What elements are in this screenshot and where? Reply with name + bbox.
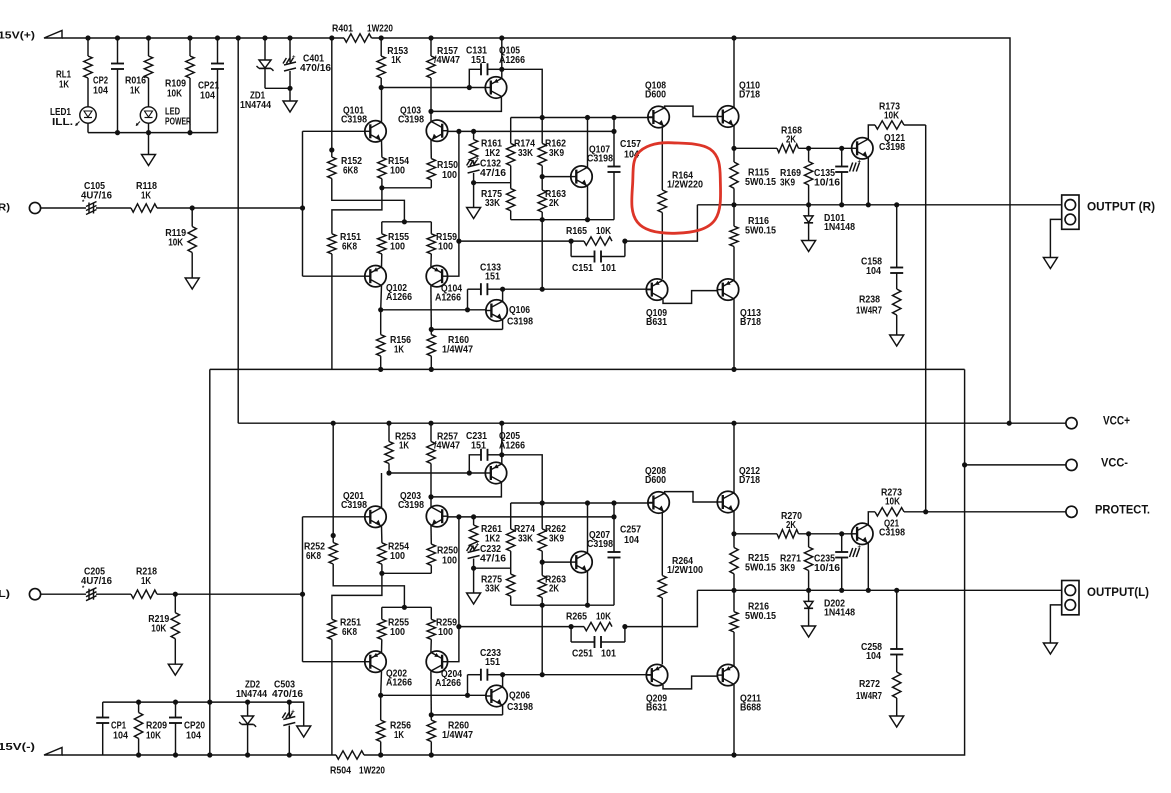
svg-text:B688: B688	[740, 703, 761, 714]
svg-text:104: 104	[200, 90, 215, 101]
junction	[187, 35, 192, 40]
junction	[731, 202, 736, 207]
svg-text:+: +	[476, 543, 480, 549]
wire: pre-driver base line	[448, 516, 614, 518]
junction	[245, 700, 250, 705]
svg-text:1N4148: 1N4148	[824, 608, 855, 619]
wire: low bias line	[511, 219, 614, 221]
wire: input to coupling cap	[41, 593, 86, 595]
junction	[190, 205, 195, 210]
off-page arrow 15V(-)	[44, 748, 62, 756]
wire: servo emitter	[502, 320, 504, 330]
svg-text:1/2W220: 1/2W220	[667, 179, 703, 190]
wire: sense collector to R173	[868, 125, 875, 139]
wire: output NPN emitter column	[733, 511, 735, 534]
wire: C-cap left lead	[469, 69, 481, 87]
junction	[962, 462, 967, 467]
svg-text:4U7/16: 4U7/16	[81, 190, 112, 201]
wire: driver base line	[381, 87, 485, 89]
resistor R255 (body)	[381, 607, 383, 619]
resistor R159 (body)	[430, 222, 432, 234]
junction	[207, 752, 212, 757]
svg-text:10K: 10K	[596, 612, 612, 623]
svg-text:D600: D600	[645, 90, 666, 101]
svg-text:1K: 1K	[394, 344, 405, 355]
transistor Q202	[365, 651, 386, 672]
wire: output NPN collector to rail	[733, 38, 735, 107]
resistor R155 (body)	[381, 222, 383, 234]
wire: LED1 cathode to bottom bus	[87, 123, 89, 133]
resistor R265 (body)	[584, 622, 612, 630]
svg-text:A1266: A1266	[435, 292, 461, 303]
svg-text:1K: 1K	[59, 79, 70, 90]
junction	[540, 217, 545, 222]
junction	[136, 752, 141, 757]
junction	[331, 421, 336, 426]
capacitor C133	[467, 289, 469, 310]
svg-text:VCC+: VCC+	[1103, 416, 1130, 428]
resistor R152 (body)	[331, 38, 333, 157]
junction	[465, 307, 470, 312]
capacitor C131	[480, 63, 482, 75]
wire: lower driver emitter jog to output PNP base	[663, 676, 717, 689]
capacitor C257	[613, 503, 615, 552]
junction	[839, 202, 844, 207]
junction	[146, 130, 151, 135]
svg-text:100: 100	[390, 165, 405, 176]
svg-text:B631: B631	[646, 703, 667, 714]
junction	[379, 571, 384, 576]
resistor R262 (body)	[541, 503, 543, 529]
junction	[923, 509, 928, 514]
wire: sense emitter to output	[867, 158, 869, 205]
junction	[585, 500, 590, 505]
wire: servo collector to bias link	[503, 674, 543, 676]
junction	[569, 239, 574, 244]
resistor R273 (body)	[875, 508, 904, 516]
junction	[287, 700, 292, 705]
svg-text:C3198: C3198	[341, 115, 367, 126]
ground for ZD1/C401	[289, 88, 291, 101]
wire: VAS collector up to bias line	[587, 503, 589, 553]
junction	[806, 146, 811, 151]
junction	[287, 35, 292, 40]
resistor R174 (body)	[510, 118, 512, 144]
wire: VAS column down to PNP pre-driver base	[448, 131, 459, 276]
svg-text:47/16: 47/16	[480, 168, 506, 179]
wire: input node to base column	[157, 207, 303, 209]
wire: LED group bottom bus	[88, 132, 218, 134]
svg-text:+: +	[858, 160, 862, 166]
junction	[378, 693, 383, 698]
wire: input node to base column	[157, 593, 303, 595]
wire: emitter resistors tie	[382, 572, 431, 574]
junction	[540, 672, 545, 677]
wire: input PNP collector leg	[380, 286, 383, 310]
wire: +15V top rail left of R401	[62, 37, 344, 39]
resistor R215 (body)	[733, 534, 735, 548]
wire: upper driver collector jog to output NPN base	[665, 106, 718, 116]
svg-text:A1266: A1266	[386, 677, 412, 688]
resistor R164 (body)	[661, 126, 663, 190]
transistor Q201	[365, 506, 386, 527]
wire: bias to driver-base link	[541, 220, 543, 290]
resistor R218 (body)	[131, 590, 157, 598]
wire: feedback line to VAS column	[459, 240, 584, 242]
wire: lower driver emitter jog to output PNP base	[663, 291, 717, 304]
svg-text:B718: B718	[740, 317, 761, 328]
wire: R157 node into pre-driver collector	[430, 497, 432, 507]
resistor R271 (body)	[808, 534, 810, 547]
junction	[429, 752, 434, 757]
svg-text:A1266: A1266	[386, 292, 412, 303]
wire: emitter node over to bias line	[502, 455, 542, 503]
LED POWER indicator	[148, 78, 150, 107]
svg-text:10K: 10K	[885, 496, 901, 507]
junction	[428, 421, 433, 426]
resistor R151 (body)	[328, 234, 336, 254]
svg-text:1K2: 1K2	[485, 533, 500, 544]
junction	[429, 712, 434, 717]
wire: driver emitter to protection divider	[734, 533, 777, 535]
junction	[471, 180, 476, 185]
svg-text:C3198: C3198	[879, 528, 905, 539]
capacitor C258	[896, 590, 898, 649]
wire: bias to driver-base link	[541, 605, 543, 675]
junction	[245, 752, 250, 757]
svg-text:104: 104	[93, 85, 108, 96]
capacitor C157	[613, 118, 615, 167]
wire: R157 node into pre-driver collector	[430, 111, 432, 121]
resistor R238 (body)	[896, 273, 898, 289]
svg-text:4U7/16: 4U7/16	[81, 576, 112, 587]
capacitor C231	[480, 449, 482, 461]
wire: output NPN emitter column	[733, 126, 735, 149]
junction	[287, 752, 292, 757]
junction	[499, 452, 504, 457]
svg-text:/4W47: /4W47	[434, 55, 460, 66]
wire: driver emitter to protection divider	[734, 147, 777, 149]
capacitor C503 electrolytic	[288, 702, 290, 716]
capacitor CP2	[117, 38, 119, 64]
junction	[187, 130, 192, 135]
junction	[378, 367, 383, 372]
resistor R175 (body)	[507, 189, 515, 211]
junction	[499, 421, 504, 426]
svg-text:104: 104	[866, 651, 881, 662]
resistor R118 (body)	[131, 204, 157, 212]
resistor R209	[138, 702, 140, 712]
svg-text:5W0.15: 5W0.15	[745, 562, 776, 573]
transistor Q108	[648, 106, 669, 127]
junction	[585, 115, 590, 120]
wire: servo node to lower driver base	[542, 674, 651, 676]
wire: C-cap right lead to emitter node	[488, 454, 502, 456]
svg-text:3K9: 3K9	[549, 148, 564, 159]
wire: servo emitter tie	[431, 714, 502, 716]
svg-text:1K2: 1K2	[485, 148, 500, 159]
resistor R153 (body)	[380, 38, 382, 56]
svg-text:L): L)	[0, 588, 10, 600]
svg-text:3K9: 3K9	[549, 533, 564, 544]
junction	[173, 592, 178, 597]
svg-text:1K: 1K	[141, 190, 152, 201]
svg-text:POWER: POWER	[165, 116, 192, 127]
junction	[262, 35, 267, 40]
transistor Q113	[717, 279, 738, 300]
svg-text:10K: 10K	[151, 624, 167, 635]
resistor R165 (body)	[584, 237, 612, 245]
wire: base column (input pair)	[302, 131, 304, 276]
svg-text:101: 101	[601, 648, 616, 659]
resistor R150 (body)	[430, 140, 432, 159]
wire: left vertical from R-neg line to bottom rail	[209, 369, 211, 755]
wire: output PNP to negative line	[733, 299, 735, 369]
resistor R274 (body)	[510, 503, 512, 529]
wire: driver base line	[389, 472, 485, 474]
transistor Q205	[485, 462, 506, 483]
junction	[611, 514, 616, 519]
transistor Q104	[426, 266, 447, 287]
zener diode ZD2	[247, 702, 249, 716]
wire: upper driver collector jog to output NPN base	[665, 492, 718, 502]
wire: bias line	[511, 117, 653, 119]
resistor R251 (body)	[328, 619, 336, 639]
svg-text:C3198: C3198	[507, 316, 533, 327]
ground under R272	[890, 716, 904, 727]
svg-text:OUTPUT (R): OUTPUT (R)	[1087, 202, 1155, 214]
resistor R261 (body)	[473, 517, 475, 525]
svg-text:10K: 10K	[167, 88, 183, 99]
resistor R157 (body)	[430, 38, 432, 56]
svg-text:R401: R401	[332, 23, 353, 34]
svg-text:101: 101	[601, 263, 616, 274]
wire: C132 bottom to R174/R175 mid	[474, 182, 511, 184]
junction	[806, 202, 811, 207]
resistor R264 (body)	[661, 512, 663, 576]
junction	[456, 624, 461, 629]
svg-text:151: 151	[485, 271, 500, 282]
junction	[379, 185, 384, 190]
junction	[1007, 421, 1012, 426]
svg-text:33K: 33K	[518, 533, 534, 544]
junction	[585, 603, 590, 608]
resistor R216 (body)	[733, 590, 735, 611]
svg-text:6K8: 6K8	[306, 551, 321, 562]
wire: emitter tie down to input node jog	[332, 188, 382, 234]
resistor R504 (body)	[336, 751, 364, 759]
wire: R173 to shared vertical	[904, 124, 926, 126]
junction	[731, 367, 736, 372]
transistor Q208	[648, 492, 669, 513]
wire: -15V bottom rail left of R504	[62, 754, 336, 756]
junction	[207, 700, 212, 705]
capacitor C158	[896, 205, 898, 268]
capacitor C135 electrolytic	[841, 148, 843, 166]
capacitor C235 electrolytic	[841, 534, 843, 552]
wire: +15V top rail right of R401 down to VCC+ junction	[372, 38, 1011, 423]
wire: C-cap left lead	[469, 455, 481, 473]
svg-text:R): R)	[0, 202, 10, 214]
ground under C232	[473, 568, 475, 593]
transistor Q203	[426, 506, 447, 527]
wire: VCC- line	[965, 464, 1066, 466]
junction	[467, 470, 472, 475]
connector OUTPUT (R)	[1062, 195, 1079, 229]
wire: feedback takeoff jog	[625, 205, 698, 241]
junction	[173, 700, 178, 705]
wire: servo collector	[502, 675, 504, 687]
resistor R252 (body)	[332, 423, 334, 542]
wire: bias line	[511, 502, 653, 504]
svg-text:10K: 10K	[596, 226, 612, 237]
wire: servo base tie	[381, 694, 486, 696]
svg-text:R165: R165	[566, 226, 587, 237]
svg-text:C251: C251	[572, 648, 593, 659]
svg-text:100: 100	[442, 170, 457, 181]
junction	[611, 129, 616, 134]
ground under D202	[802, 626, 816, 637]
svg-text:1W4R7: 1W4R7	[856, 691, 882, 702]
svg-text:5W0.15: 5W0.15	[745, 611, 776, 622]
transistor Q109	[646, 279, 667, 300]
svg-text:C3198: C3198	[398, 500, 424, 511]
svg-text:C3198: C3198	[507, 702, 533, 713]
wire: feedback line to VAS column	[459, 626, 584, 628]
svg-text:1K: 1K	[130, 85, 141, 96]
svg-text:470/16: 470/16	[300, 63, 331, 74]
junction	[471, 129, 476, 134]
capacitor CP20	[175, 702, 177, 717]
wire: input PNP collector leg	[380, 671, 383, 695]
ground right of C503	[297, 726, 311, 737]
junction	[378, 752, 383, 757]
svg-text:C157: C157	[620, 139, 641, 150]
junction	[146, 35, 151, 40]
junction	[839, 531, 844, 536]
zener diode ZD1	[264, 38, 266, 60]
svg-text:R238: R238	[859, 294, 880, 305]
svg-text:C3198: C3198	[587, 539, 613, 550]
junction	[622, 624, 627, 629]
wire: R-channel negative supply line	[210, 368, 965, 370]
ground under R219	[168, 664, 182, 675]
capacitor C105 non-polar	[86, 202, 97, 215]
wire: emitter node over to bias line	[502, 69, 542, 117]
junction	[499, 35, 504, 40]
svg-text:R504: R504	[330, 765, 351, 776]
resistor R109	[189, 38, 191, 56]
junction	[85, 35, 90, 40]
junction	[429, 327, 434, 332]
svg-text:1K: 1K	[399, 440, 410, 451]
svg-text:2K: 2K	[549, 584, 560, 595]
wire: servo collector	[502, 289, 504, 301]
ground under R119	[185, 278, 199, 289]
wire: L-channel positive rail to VCC+ terminal	[238, 422, 1065, 424]
svg-text:6K8: 6K8	[342, 627, 357, 638]
wire: servo emitter tie	[431, 328, 502, 330]
svg-text:/4W47: /4W47	[434, 440, 460, 451]
svg-text:2K: 2K	[786, 134, 797, 145]
junction	[467, 85, 472, 90]
wire: servo node to lower driver base	[542, 288, 651, 290]
svg-text:151: 151	[471, 440, 486, 451]
wire: servo emitter	[502, 705, 504, 715]
svg-text:3K9: 3K9	[780, 563, 795, 574]
wire: pre-driver base line	[448, 130, 614, 132]
svg-text:15V(+): 15V(+)	[0, 30, 35, 42]
resistor R257 (body)	[430, 423, 432, 441]
off-page arrow 15V(+)	[44, 31, 62, 39]
svg-text:2K: 2K	[549, 198, 560, 209]
wire: divider line to sense transistor base	[799, 533, 852, 535]
junction	[500, 287, 505, 292]
junction	[839, 146, 844, 151]
capacitor C251	[570, 627, 572, 642]
svg-text:6K8: 6K8	[342, 241, 357, 252]
terminal VCC+	[1066, 418, 1077, 429]
resistor R169 (body)	[808, 148, 810, 161]
junction	[622, 239, 627, 244]
resistor R154 (body)	[381, 141, 383, 158]
junction	[300, 205, 305, 210]
junction	[499, 67, 504, 72]
junction	[402, 605, 407, 610]
svg-text:C3198: C3198	[879, 142, 905, 153]
wire: PROTECT line to terminal	[904, 511, 1066, 513]
svg-text:Q206: Q206	[509, 690, 530, 701]
connector OUTPUT (L)	[1062, 581, 1079, 615]
svg-text:+: +	[858, 545, 862, 551]
resistor R115 (body)	[733, 148, 735, 162]
junction	[236, 35, 241, 40]
junction	[731, 421, 736, 426]
wire: base line to NPN input tr	[303, 516, 365, 518]
svg-text:C3198: C3198	[398, 115, 424, 126]
svg-text:104: 104	[866, 266, 881, 277]
transistor Q209	[646, 664, 667, 685]
transistor Q105	[485, 77, 506, 98]
wire: emitter to rail	[501, 38, 503, 78]
svg-text:C3198: C3198	[341, 500, 367, 511]
svg-text:33K: 33K	[485, 198, 501, 209]
svg-text:1W220: 1W220	[359, 765, 385, 776]
wire: base column (input pair)	[302, 517, 304, 662]
resistor R259 (body)	[430, 607, 432, 619]
svg-text:100: 100	[390, 551, 405, 562]
resistor R161 (body)	[473, 131, 475, 139]
resistor R116 (body)	[733, 205, 735, 226]
junction	[402, 219, 407, 224]
svg-text:47/16: 47/16	[480, 553, 506, 564]
wire: VAS emitter down	[587, 186, 589, 220]
svg-text:15V(-): 15V(-)	[0, 741, 35, 753]
wire: emitter tie down to input node jog	[332, 573, 382, 619]
svg-text:104: 104	[624, 535, 639, 546]
diode D202	[808, 590, 810, 601]
resistor R016	[148, 38, 150, 56]
terminal VCC-	[1066, 459, 1077, 470]
wire: emitter resistors tie	[382, 187, 431, 189]
svg-text:D718: D718	[739, 90, 760, 101]
svg-text:1W220: 1W220	[367, 23, 393, 34]
wire: collector of input NPN to R253	[381, 473, 383, 507]
svg-text:1K: 1K	[141, 576, 152, 587]
transistor Q21	[852, 523, 873, 544]
junction	[540, 287, 545, 292]
junction	[386, 470, 391, 475]
